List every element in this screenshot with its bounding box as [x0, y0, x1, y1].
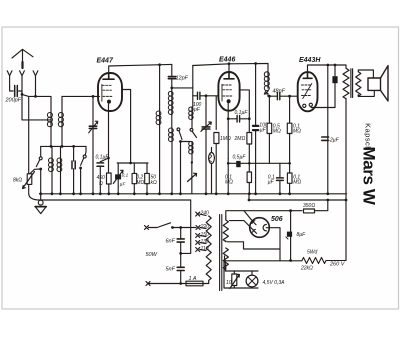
node screen div: [248, 117, 251, 120]
resistor 350 ohm: [244, 210, 302, 212]
node B+ rail: [289, 259, 292, 262]
svg-text:0,1: 0,1: [122, 173, 129, 178]
wire osc column left: [159, 65, 161, 111]
wire E446 top: [193, 64, 268, 73]
capacitor 5nF: [180, 253, 182, 283]
transformer tap 110: [196, 248, 200, 252]
coil L2 antenna secondary: [61, 113, 63, 127]
G_PSU power supply: [145, 200, 347, 291]
antenna terminal A3: [33, 71, 38, 97]
capacitor 100pF series: [193, 95, 206, 97]
wire coupling top left: [29, 96, 51, 112]
transformer tap 150: [196, 234, 200, 238]
G_OUT output tube and speaker: [298, 64, 388, 261]
antenna symbol: [12, 49, 33, 62]
wire filament bottom: [227, 242, 280, 249]
band switch S1: [40, 146, 42, 156]
node mixer grid: [205, 94, 208, 97]
heater secondary: [223, 248, 228, 270]
svg-text:pF: pF: [193, 107, 201, 113]
svg-text:8kΩ: 8kΩ: [13, 178, 22, 184]
E443H pins: [303, 104, 306, 107]
svg-text:Mars W: Mars W: [360, 146, 379, 205]
svg-text:8µF: 8µF: [297, 232, 307, 238]
svg-text:12pF: 12pF: [176, 76, 189, 82]
chassis bus: [40, 193, 347, 195]
tube E447 envelope: [98, 73, 122, 111]
node fuse wire: [179, 282, 182, 285]
svg-text:MΩ: MΩ: [225, 179, 233, 185]
svg-text:5Wd: 5Wd: [307, 250, 318, 256]
wire anode1: [226, 211, 253, 222]
wire B+ out: [225, 249, 303, 261]
svg-text:MΩ: MΩ: [293, 179, 301, 185]
coil L5: [159, 111, 161, 125]
svg-text:5nF: 5nF: [166, 267, 176, 273]
capacitor 8uF: [287, 232, 292, 237]
svg-text:2µF: 2µF: [329, 138, 340, 144]
svg-text:MΩ: MΩ: [293, 128, 301, 134]
svg-text:µF: µF: [268, 179, 275, 185]
resistor 0,2M: [133, 163, 135, 173]
power transformer primary: [206, 216, 211, 284]
capacitor padder: [73, 146, 75, 193]
node if tap: [268, 95, 271, 98]
resistor 50k: [146, 163, 148, 173]
node antenna junction: [21, 93, 24, 96]
coupling cap 100 black: [255, 64, 257, 194]
svg-text:4,5V 0,3A: 4,5V 0,3A: [263, 280, 286, 286]
resistor 0,1M agc: [247, 172, 251, 183]
svg-text:E443H: E443H: [299, 57, 321, 64]
detector line: [228, 162, 289, 164]
capacitor 0,2uF: [322, 137, 329, 140]
heater wire top: [225, 261, 258, 271]
svg-text:kΩ: kΩ: [151, 180, 158, 186]
wire anode2: [230, 221, 254, 231]
svg-text:260 V: 260 V: [329, 262, 346, 268]
node lower bus left: [248, 199, 251, 202]
svg-text:0,1µF: 0,1µF: [96, 155, 110, 161]
lower bus right segment: [249, 193, 346, 200]
resistor 0,1M grid: [287, 173, 292, 183]
switch S3: [177, 128, 180, 131]
node det: [288, 95, 291, 98]
hv secondary: [223, 217, 228, 242]
resistor 22k bleeder: [302, 258, 346, 264]
wire voice coil bottom: [358, 90, 374, 96]
capacitor 0,1uF padder: [117, 163, 119, 194]
svg-text:µF: µF: [260, 128, 267, 134]
output transformer primary: [343, 68, 349, 99]
G_E446 second tube section: [193, 62, 290, 194]
E446 grid rail: [221, 84, 223, 101]
lamp indicator: [211, 148, 213, 194]
node input top: [34, 95, 37, 98]
node 350 left: [289, 209, 292, 212]
wire E447 grid2 right: [122, 90, 131, 164]
svg-text:10: 10: [226, 280, 232, 286]
node 2M bottom: [248, 162, 251, 165]
potentiometer 8k: [27, 174, 32, 185]
wire E447 anode top: [109, 64, 172, 73]
wire E446 screen right: [239, 90, 249, 133]
506 anode 1: [252, 221, 256, 225]
trimmer arrow contact: [188, 173, 197, 181]
lower bus: [40, 200, 191, 253]
wire E446 cathode down: [227, 103, 229, 158]
mains switch: [149, 223, 171, 228]
resistor 2M: [247, 133, 252, 145]
E447 anode: [103, 73, 114, 79]
switch S4: [190, 128, 193, 131]
E447 cathode: [107, 100, 111, 104]
wire B+ filter: [290, 211, 292, 261]
mains terminal L: [145, 226, 149, 230]
output transformer core: [351, 69, 353, 98]
svg-text:E446: E446: [219, 57, 235, 64]
wire 1M column: [215, 96, 217, 129]
svg-text:0,5µF: 0,5µF: [233, 154, 247, 160]
wire E447 cathode down: [108, 104, 110, 173]
G_TUNER left tuning section: [23, 95, 100, 194]
E446 cathode: [227, 99, 231, 103]
svg-text:506: 506: [271, 216, 283, 223]
node screen top: [326, 64, 329, 67]
node top wire: [158, 63, 161, 66]
band switch S2: [84, 146, 87, 155]
wire antenna tap to coil: [22, 94, 50, 120]
svg-text:48nF: 48nF: [273, 89, 286, 95]
variable capacitor tuning: [92, 96, 94, 193]
node rf filter mid: [179, 252, 182, 255]
speaker cone: [381, 66, 389, 101]
speaker driver: [368, 78, 381, 90]
coil L8: [191, 107, 193, 119]
coil L9: [191, 142, 193, 154]
dial lamp: [251, 271, 253, 275]
node screen lower: [326, 199, 329, 202]
svg-text:1MΩ: 1MΩ: [220, 136, 231, 142]
output transformer secondary: [356, 72, 361, 96]
svg-text:MΩ: MΩ: [273, 128, 281, 134]
node E446 anode top: [228, 62, 231, 65]
trimmer cap T1: [205, 96, 207, 126]
coil L4 lower right: [60, 146, 62, 158]
E443H grids: [302, 85, 312, 96]
node tone top: [334, 64, 337, 67]
svg-text:350Ω: 350Ω: [303, 203, 315, 209]
node coupling top: [254, 62, 257, 65]
capacitor 0,1uF avc: [279, 163, 281, 194]
wire cathode to bus: [227, 159, 229, 194]
capacitor 6nF: [180, 228, 182, 254]
power transformer core: [220, 215, 222, 291]
fuse 1A: [148, 283, 186, 285]
svg-text:Ω: Ω: [99, 181, 103, 187]
svg-text:50W: 50W: [146, 252, 158, 258]
node rf filter top: [179, 226, 182, 229]
antenna terminal A1: [7, 71, 12, 87]
capacitor 12pF: [171, 64, 173, 88]
wire E446 grid left: [206, 95, 219, 97]
506 filament: [263, 225, 266, 231]
antenna terminal A2: [20, 71, 25, 95]
svg-text:220: 220: [200, 224, 210, 230]
tone capacitor black: [334, 65, 336, 76]
node L4 bus: [61, 145, 64, 148]
resistor 1M: [214, 133, 219, 144]
coil L1 antenna primary: [50, 113, 52, 127]
bus band-switch y146: [41, 145, 86, 147]
capacitor 0,1uF coupling: [228, 118, 247, 120]
svg-text:2MΩ: 2MΩ: [234, 136, 246, 142]
transformer tap 130: [196, 241, 200, 245]
wire coupling top right: [61, 96, 63, 112]
svg-text:1 A: 1 A: [189, 276, 197, 282]
capacitor 0,5uF series black: [236, 161, 240, 167]
capacitor 0,1uF cathode: [100, 158, 108, 194]
heater wire bottom: [224, 262, 258, 288]
wire grid top to E447: [62, 95, 100, 97]
mains terminal N: [146, 282, 150, 286]
rheostat 10: [233, 271, 235, 274]
svg-text:0,1µF: 0,1µF: [235, 110, 249, 116]
node avc wire: [288, 162, 291, 165]
G_E447 first tube section: [97, 63, 172, 193]
svg-text:150: 150: [201, 232, 210, 238]
E443H anode: [303, 72, 312, 78]
node detector line: [227, 162, 230, 165]
node osc grid: [170, 87, 173, 90]
wire osc col top: [192, 66, 194, 108]
node L2 bus: [50, 145, 53, 148]
coil L7 feedback: [171, 128, 173, 142]
svg-text:130: 130: [201, 239, 210, 245]
wire screen column: [327, 65, 329, 194]
wire B+ from transformer: [345, 99, 347, 261]
coil L3 lower left: [51, 146, 53, 158]
506 anode 2: [253, 229, 257, 233]
svg-text:6nF: 6nF: [166, 239, 176, 245]
node padder bus: [72, 145, 75, 148]
G_IF if/detector section: [264, 64, 298, 194]
wire osc feedback: [172, 87, 193, 89]
coil L10 if: [267, 64, 269, 73]
E446 grids: [222, 85, 232, 96]
node cathode: [227, 117, 230, 120]
E447 grids: [102, 85, 112, 96]
resistor 450 ohm: [107, 173, 112, 184]
node varcap top: [92, 95, 95, 98]
wire to volume pot and bus: [22, 94, 40, 200]
node lower bus right: [345, 199, 348, 202]
E446 anode: [224, 72, 234, 79]
ground symbol: [40, 193, 42, 200]
tube E443H envelope: [298, 72, 318, 111]
svg-text:MΩ: MΩ: [136, 180, 144, 186]
capacitor 200pF: [10, 87, 22, 95]
resistor 0,5M b: [289, 96, 291, 123]
G_TXT labels: [5, 57, 379, 287]
transformer tap 240: [196, 212, 200, 216]
coil L6 osc grid: [171, 88, 173, 115]
svg-text:E447: E447: [97, 58, 114, 65]
svg-text:110: 110: [201, 246, 209, 252]
svg-text:200pF: 200pF: [5, 98, 22, 104]
E447 grid rail: [101, 85, 103, 102]
wire filament top: [266, 228, 280, 249]
E443H cathode diagonal: [303, 84, 312, 99]
rectifier 506: [250, 218, 270, 238]
G_OSC middle oscillator section: [156, 64, 219, 193]
tube E446 envelope: [218, 72, 239, 111]
G_BUS buses and ground: [35, 192, 347, 253]
capacitor 48nF series: [268, 95, 298, 97]
wire switch to coil: [181, 141, 191, 143]
transformer tap 220: [196, 226, 200, 230]
resistor 0,5M a: [268, 96, 270, 123]
wire voice coil top: [358, 70, 373, 78]
bus nodes: [39, 192, 329, 195]
svg-text:240: 240: [200, 211, 210, 217]
wire rc network: [117, 162, 148, 164]
svg-text:22kΩ: 22kΩ: [300, 266, 313, 272]
wire E443H anode top: [308, 65, 347, 72]
wire switch to pot top: [30, 169, 41, 174]
G_ANT antenna & input: [7, 49, 50, 200]
